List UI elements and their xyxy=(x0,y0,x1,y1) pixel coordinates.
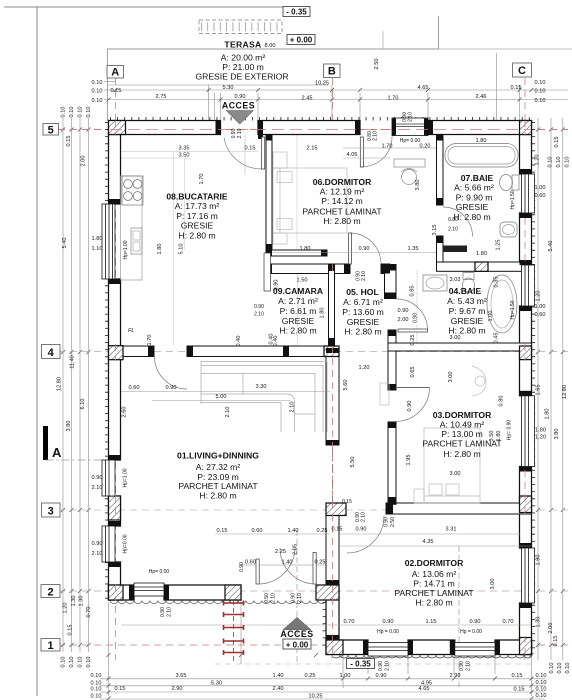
svg-text:2.10: 2.10 xyxy=(361,271,367,281)
baie7 door xyxy=(443,207,473,237)
witness verticals top xyxy=(208,85,210,120)
svg-text:0.10: 0.10 xyxy=(565,157,571,168)
kitchen counter xyxy=(121,176,143,280)
svg-text:0.90: 0.90 xyxy=(291,593,297,603)
svg-text:4.65: 4.65 xyxy=(419,686,430,692)
03/04 left wall xyxy=(385,265,397,299)
axis A xyxy=(115,78,117,660)
svg-text:2: 2 xyxy=(47,587,53,599)
svg-text:0.10: 0.10 xyxy=(549,663,555,674)
svg-text:12.80: 12.80 xyxy=(57,377,63,391)
exterior window caps xyxy=(109,199,121,204)
svg-text:2.10: 2.10 xyxy=(385,661,391,671)
kitchen hob xyxy=(122,176,143,205)
svg-text:5.00: 5.00 xyxy=(216,394,227,400)
baie4 shower oval xyxy=(487,275,517,333)
svg-text:2.60: 2.60 xyxy=(122,407,128,418)
svg-text:2.00: 2.00 xyxy=(548,623,554,634)
svg-text:03.DORMITOR: 03.DORMITOR xyxy=(433,410,492,420)
svg-text:A: 2.71 m²: A: 2.71 m² xyxy=(278,296,318,306)
svg-text:2.10: 2.10 xyxy=(225,407,231,418)
step wall x326 xyxy=(326,585,339,640)
svg-text:GRESIE: GRESIE xyxy=(451,316,484,326)
svg-text:1: 1 xyxy=(47,640,53,652)
dorm6 desk + chair xyxy=(394,159,425,167)
svg-text:0.10: 0.10 xyxy=(86,107,92,118)
svg-text:1.80: 1.80 xyxy=(545,409,551,420)
svg-text:2.10: 2.10 xyxy=(361,512,367,522)
svg-text:Hp=1.00: Hp=1.00 xyxy=(123,240,129,259)
baie4 toilet xyxy=(463,273,474,280)
hatched blocks xyxy=(109,121,532,655)
svg-text:PARCHET LAMINAT: PARCHET LAMINAT xyxy=(302,206,382,216)
svg-text:5.40: 5.40 xyxy=(62,238,68,249)
svg-text:GRESIE: GRESIE xyxy=(282,316,315,326)
svg-text:2.45: 2.45 xyxy=(302,96,313,102)
svg-text:2.90: 2.90 xyxy=(172,686,183,692)
top wall xyxy=(109,121,221,135)
dimension numbers xyxy=(91,80,559,700)
svg-text:1.00: 1.00 xyxy=(535,304,546,310)
baie4 sink xyxy=(423,275,447,291)
svg-text:A: 5.66 m²: A: 5.66 m² xyxy=(454,183,494,193)
svg-text:2.10: 2.10 xyxy=(373,131,379,141)
svg-text:P: 13.00 m: P: 13.00 m xyxy=(441,429,483,439)
svg-text:P: 9.90 m: P: 9.90 m xyxy=(456,192,493,202)
svg-text:0.10: 0.10 xyxy=(536,673,547,679)
svg-text:0.10: 0.10 xyxy=(535,80,546,86)
svg-text:H: 2.80 m: H: 2.80 m xyxy=(453,212,490,222)
svg-text:5.10: 5.10 xyxy=(179,244,185,255)
svg-text:1.20: 1.20 xyxy=(63,603,69,614)
svg-text:1.20: 1.20 xyxy=(536,291,542,302)
svg-text:1.70: 1.70 xyxy=(382,144,393,150)
svg-text:2.10: 2.10 xyxy=(167,607,173,617)
svg-text:1.80: 1.80 xyxy=(496,431,502,442)
svg-text:0.90: 0.90 xyxy=(383,619,394,625)
svg-text:4: 4 xyxy=(48,347,55,359)
svg-text:2.50: 2.50 xyxy=(374,59,380,70)
svg-text:5.50: 5.50 xyxy=(350,457,356,468)
svg-text:0.15: 0.15 xyxy=(342,499,352,505)
03/02 wall xyxy=(386,503,532,514)
svg-text:1.10: 1.10 xyxy=(92,246,103,252)
svg-text:0.80: 0.80 xyxy=(448,217,458,223)
svg-text:0.10: 0.10 xyxy=(536,680,547,686)
right wall xyxy=(520,135,532,175)
dorm3 furniture xyxy=(414,428,480,503)
svg-text:0.70: 0.70 xyxy=(86,607,92,618)
svg-text:0.90: 0.90 xyxy=(384,517,390,527)
svg-text:0.15: 0.15 xyxy=(245,146,256,152)
svg-text:0.10: 0.10 xyxy=(61,657,67,668)
axis 2 xyxy=(58,590,568,592)
svg-text:2.10: 2.10 xyxy=(448,227,458,233)
svg-text:5: 5 xyxy=(48,125,54,137)
dorm3 small items top xyxy=(380,383,389,405)
svg-text:0.15: 0.15 xyxy=(68,625,74,636)
svg-text:PARCHET LAMINAT: PARCHET LAMINAT xyxy=(178,481,258,491)
svg-text:0.90: 0.90 xyxy=(160,607,166,617)
svg-text:0.10: 0.10 xyxy=(69,107,75,118)
svg-text:1.95: 1.95 xyxy=(406,455,412,466)
svg-text:1.80: 1.80 xyxy=(157,244,163,255)
svg-text:0.25: 0.25 xyxy=(317,528,328,534)
dorm2 door xyxy=(347,516,384,553)
ACCES bottom xyxy=(280,617,313,639)
svg-text:4.35: 4.35 xyxy=(423,539,434,545)
baie4 door xyxy=(397,299,428,330)
svg-text:Hp= 0.00: Hp= 0.00 xyxy=(149,569,170,575)
left wall windows xyxy=(102,204,115,279)
svg-text:4.05: 4.05 xyxy=(347,152,358,158)
svg-text:1.65: 1.65 xyxy=(536,385,542,396)
svg-text:3.00: 3.00 xyxy=(450,471,461,477)
acces top door xyxy=(224,138,262,170)
svg-text:04.BAIE: 04.BAIE xyxy=(449,286,482,296)
svg-text:2.50: 2.50 xyxy=(390,517,396,527)
svg-text:2.10: 2.10 xyxy=(92,551,103,557)
svg-text:0.15: 0.15 xyxy=(514,687,525,693)
living/dorm2 wall xyxy=(326,348,339,445)
svg-text:1.25: 1.25 xyxy=(496,240,502,251)
svg-text:05. HOL: 05. HOL xyxy=(346,287,378,297)
svg-text:GRESIE: GRESIE xyxy=(347,317,380,327)
svg-text:A: A xyxy=(111,67,119,79)
svg-text:2.10: 2.10 xyxy=(466,661,472,671)
svg-text:1.70: 1.70 xyxy=(388,96,399,102)
svg-text:ACCES: ACCES xyxy=(280,629,313,639)
svg-text:5.30: 5.30 xyxy=(211,681,222,687)
dark dash-dot vertical x332 low xyxy=(332,448,334,652)
dorm6 door xyxy=(350,233,381,264)
svg-text:H: 2.80 m: H: 2.80 m xyxy=(344,327,381,337)
svg-text:3.50: 3.50 xyxy=(179,153,190,159)
svg-text:0.20: 0.20 xyxy=(420,144,431,150)
bottom horizontals xyxy=(330,657,531,659)
svg-text:P: 6.61 m: P: 6.61 m xyxy=(280,306,317,316)
svg-text:0.80: 0.80 xyxy=(499,396,505,407)
svg-text:1.00: 1.00 xyxy=(488,311,494,322)
svg-text:0.90: 0.90 xyxy=(407,401,413,412)
svg-text:3.80: 3.80 xyxy=(66,421,72,432)
axis boxes xyxy=(41,63,532,651)
svg-text:1.40: 1.40 xyxy=(288,528,299,534)
baie7 sink xyxy=(500,222,517,237)
svg-text:A: 17.73 m²: A: 17.73 m² xyxy=(175,201,220,211)
svg-text:Hp = 0.00: Hp = 0.00 xyxy=(377,629,399,635)
svg-text:A: 12.19 m²: A: 12.19 m² xyxy=(320,186,365,196)
svg-text:0.10: 0.10 xyxy=(536,693,547,699)
svg-text:0.90: 0.90 xyxy=(166,385,177,391)
dorm3 door xyxy=(396,388,430,422)
svg-text:P: 14.12 m: P: 14.12 m xyxy=(321,196,363,206)
axis B xyxy=(332,78,334,135)
svg-text:0.15: 0.15 xyxy=(217,528,228,534)
svg-text:07.BAIE: 07.BAIE xyxy=(461,173,494,183)
svg-text:P: 9.67 m: P: 9.67 m xyxy=(449,306,486,316)
right verticals xyxy=(537,118,539,660)
svg-text:0.90: 0.90 xyxy=(376,673,387,679)
interior: kitchen/dorm6 wall xyxy=(121,135,532,586)
svg-text:H: 2.80 m: H: 2.80 m xyxy=(279,326,316,336)
svg-text:0.15: 0.15 xyxy=(511,85,522,91)
svg-text:6.10: 6.10 xyxy=(80,399,86,410)
svg-text:4.65: 4.65 xyxy=(418,85,429,91)
svg-text:P: 14.71 m: P: 14.71 m xyxy=(413,579,455,589)
axis 4 xyxy=(58,351,568,353)
rotated dims xyxy=(57,59,572,674)
windows xyxy=(102,118,535,656)
svg-text:3.15: 3.15 xyxy=(432,225,438,236)
svg-text:P: 17.16 m: P: 17.16 m xyxy=(176,211,218,221)
svg-text:0.90: 0.90 xyxy=(235,94,246,100)
svg-text:A: 5.43 m²: A: 5.43 m² xyxy=(447,296,487,306)
svg-text:0.90: 0.90 xyxy=(92,541,103,547)
svg-text:0.10: 0.10 xyxy=(92,80,103,86)
kitchen-living door xyxy=(155,357,188,390)
svg-text:Hp=0.00: Hp=0.00 xyxy=(123,534,129,553)
svg-text:0.70: 0.70 xyxy=(503,619,514,625)
axis ticks (45deg) left xyxy=(61,88,565,700)
dorm6 terrace door xyxy=(364,137,393,167)
svg-text:2.40: 2.40 xyxy=(273,686,284,692)
svg-text:0.25: 0.25 xyxy=(305,673,316,679)
svg-text:2.10: 2.10 xyxy=(92,485,103,491)
svg-text:0.10: 0.10 xyxy=(91,687,102,693)
svg-text:1.80: 1.80 xyxy=(535,428,546,434)
svg-text:01.LIVING+DINNING: 01.LIVING+DINNING xyxy=(177,451,259,461)
room text blocks xyxy=(166,40,502,608)
svg-text:2.00: 2.00 xyxy=(398,317,409,323)
svg-text:0.85: 0.85 xyxy=(410,286,416,297)
svg-text:0.15: 0.15 xyxy=(66,136,72,147)
svg-text:- 0.35: - 0.35 xyxy=(350,660,371,669)
svg-text:0.10: 0.10 xyxy=(91,673,102,679)
svg-text:0.15: 0.15 xyxy=(553,636,559,647)
svg-text:0.10: 0.10 xyxy=(535,89,546,95)
svg-text:3.00: 3.00 xyxy=(450,335,461,341)
svg-text:10.25: 10.25 xyxy=(315,81,329,87)
svg-text:1.30: 1.30 xyxy=(79,596,85,607)
07/04 wall xyxy=(437,262,532,271)
svg-text:0.65: 0.65 xyxy=(410,367,416,378)
left wall xyxy=(109,135,121,205)
svg-text:0.35: 0.35 xyxy=(494,277,500,288)
svg-text:12.80: 12.80 xyxy=(562,385,568,399)
svg-text:Hp= 0.00: Hp= 0.00 xyxy=(400,138,421,144)
svg-text:A: A xyxy=(52,445,62,460)
svg-text:1.80: 1.80 xyxy=(476,138,487,144)
svg-text:5.40: 5.40 xyxy=(548,241,554,252)
svg-text:5.30: 5.30 xyxy=(223,85,234,91)
svg-text:0.15: 0.15 xyxy=(111,88,122,94)
svg-text:0.10: 0.10 xyxy=(86,657,92,668)
svg-text:3.80: 3.80 xyxy=(415,180,421,191)
svg-text:3.50: 3.50 xyxy=(489,431,495,442)
svg-text:2.10: 2.10 xyxy=(408,112,414,122)
svg-text:H: 2.80 m: H: 2.80 m xyxy=(415,598,452,608)
svg-text:B: B xyxy=(328,66,336,78)
axis 1 xyxy=(58,644,568,646)
svg-text:0.60: 0.60 xyxy=(129,385,140,391)
svg-text:0.90: 0.90 xyxy=(398,308,409,314)
svg-text:0.10: 0.10 xyxy=(78,657,84,668)
svg-text:0.90: 0.90 xyxy=(274,280,280,291)
svg-text:0.90: 0.90 xyxy=(359,246,370,252)
svg-text:09.CAMARA: 09.CAMARA xyxy=(273,286,323,296)
svg-text:1.80: 1.80 xyxy=(320,308,326,319)
dorm6 bed xyxy=(273,152,347,244)
svg-text:0.90: 0.90 xyxy=(413,313,419,323)
svg-text:Hp=1.50: Hp=1.50 xyxy=(510,300,516,319)
svg-text:3.35: 3.35 xyxy=(179,146,190,152)
svg-text:0.60: 0.60 xyxy=(535,312,546,318)
svg-text:0.15: 0.15 xyxy=(512,673,523,679)
svg-text:1.80: 1.80 xyxy=(536,555,542,566)
axis 3 xyxy=(58,509,568,511)
svg-text:0.10: 0.10 xyxy=(535,98,546,104)
svg-text:1.30: 1.30 xyxy=(536,617,542,628)
svg-text:3.65: 3.65 xyxy=(176,673,187,679)
svg-text:FL: FL xyxy=(128,328,134,334)
svg-text:2.25: 2.25 xyxy=(275,549,286,555)
svg-text:0.45: 0.45 xyxy=(494,333,500,344)
svg-text:H: 2.80 m: H: 2.80 m xyxy=(443,449,480,459)
svg-text:1.50: 1.50 xyxy=(297,278,308,284)
svg-text:0.90: 0.90 xyxy=(356,527,367,533)
right wall windows xyxy=(522,174,535,213)
svg-text:0.60: 0.60 xyxy=(535,193,546,199)
svg-text:H: 2.80 m: H: 2.80 m xyxy=(199,491,236,501)
baie7 toilet xyxy=(512,175,519,190)
bottom-left wall (living) xyxy=(109,585,135,600)
svg-text:08.BUCATARIE: 08.BUCATARIE xyxy=(166,192,228,202)
svg-text:0.10: 0.10 xyxy=(536,687,547,693)
svg-text:- 0.35: - 0.35 xyxy=(286,8,307,17)
top wall window xyxy=(392,118,428,136)
svg-text:1.70: 1.70 xyxy=(147,335,153,346)
svg-text:2.05: 2.05 xyxy=(293,544,299,555)
bottom wall (dorm2) xyxy=(326,640,368,655)
svg-text:0.60: 0.60 xyxy=(252,528,263,534)
svg-text:3.30: 3.30 xyxy=(256,384,267,390)
svg-text:02.DORMITOR: 02.DORMITOR xyxy=(405,558,464,568)
svg-text:+ 0.00: + 0.00 xyxy=(290,36,313,45)
L-shaped sofa (living) xyxy=(201,362,327,433)
svg-text:1.20: 1.20 xyxy=(535,435,546,441)
svg-text:A: 10.49 m²: A: 10.49 m² xyxy=(440,420,485,430)
svg-text:2.46: 2.46 xyxy=(476,94,487,100)
svg-text:TERASA: TERASA xyxy=(224,40,261,50)
svg-text:0.90: 0.90 xyxy=(459,661,465,671)
svg-text:3.31: 3.31 xyxy=(446,527,457,533)
svg-text:2.10: 2.10 xyxy=(290,402,296,413)
svg-text:2.10: 2.10 xyxy=(237,128,243,138)
svg-text:1.20: 1.20 xyxy=(359,365,370,371)
svg-text:1.40: 1.40 xyxy=(273,673,284,679)
bottom-left window xyxy=(134,583,164,596)
svg-text:0.25: 0.25 xyxy=(315,560,326,566)
witness verticals bottom xyxy=(240,600,242,664)
svg-text:0.15: 0.15 xyxy=(554,137,560,148)
svg-text:A: 13.06 m²: A: 13.06 m² xyxy=(412,569,457,579)
baie7 bathtub xyxy=(445,144,518,168)
svg-text:3.00: 3.00 xyxy=(490,579,496,590)
svg-text:8.00: 8.00 xyxy=(265,43,276,49)
svg-text:Hp= 0.90: Hp= 0.90 xyxy=(507,420,513,441)
svg-text:0.40: 0.40 xyxy=(236,336,242,347)
svg-text:2.75: 2.75 xyxy=(156,94,167,100)
svg-text:0.60: 0.60 xyxy=(245,560,256,566)
svg-text:0.10: 0.10 xyxy=(69,657,75,668)
svg-text:Hp = 0.00: Hp = 0.00 xyxy=(460,629,482,635)
interior door jambs xyxy=(344,264,350,274)
svg-text:0.10: 0.10 xyxy=(78,107,84,118)
svg-text:Hp=1.00: Hp=1.00 xyxy=(123,468,129,487)
svg-text:1.35: 1.35 xyxy=(408,246,419,252)
svg-text:0.90: 0.90 xyxy=(92,475,103,481)
svg-text:0.10: 0.10 xyxy=(548,157,554,168)
interior light witness lines xyxy=(214,93,216,120)
ACCES top xyxy=(222,100,255,124)
svg-text:1.30: 1.30 xyxy=(71,596,77,607)
svg-text:ACCES: ACCES xyxy=(222,100,255,110)
svg-text:0.10: 0.10 xyxy=(91,694,102,700)
svg-text:0.10: 0.10 xyxy=(565,663,571,674)
svg-text:1.15: 1.15 xyxy=(426,619,437,625)
svg-text:3.00: 3.00 xyxy=(448,372,454,383)
axis4 wall (kitchen/living) xyxy=(121,346,155,357)
top horizontals xyxy=(104,81,115,83)
svg-text:0.10: 0.10 xyxy=(557,663,563,674)
svg-text:0.90: 0.90 xyxy=(378,661,384,671)
svg-text:0.25: 0.25 xyxy=(410,335,416,346)
dorm6 bottom walls xyxy=(266,250,327,256)
svg-text:1.00: 1.00 xyxy=(535,185,546,191)
svg-text:H: 2.80 m: H: 2.80 m xyxy=(323,216,360,226)
level labels xyxy=(283,7,375,669)
camara right wall xyxy=(329,264,335,345)
svg-text:10.25: 10.25 xyxy=(309,694,323,700)
svg-text:11.40: 11.40 xyxy=(70,355,76,369)
scallop bottom-left xyxy=(110,601,334,604)
svg-text:0.90: 0.90 xyxy=(254,304,264,310)
svg-text:1.80: 1.80 xyxy=(476,251,487,257)
kitchen sink xyxy=(131,228,142,254)
svg-text:1.70: 1.70 xyxy=(199,174,205,185)
svg-text:1.80: 1.80 xyxy=(92,236,103,242)
svg-text:0.10: 0.10 xyxy=(556,157,562,168)
svg-text:0.90: 0.90 xyxy=(239,562,245,572)
svg-text:3.80: 3.80 xyxy=(554,429,560,440)
axis C xyxy=(524,78,526,660)
svg-text:A: 20.00 m²: A: 20.00 m² xyxy=(221,53,266,63)
svg-text:PARCHET LAMINAT: PARCHET LAMINAT xyxy=(394,588,474,598)
svg-text:0.90: 0.90 xyxy=(470,619,481,625)
svg-text:GRESIE: GRESIE xyxy=(456,202,489,212)
svg-text:C: C xyxy=(518,65,526,77)
svg-text:P: 13.60 m: P: 13.60 m xyxy=(342,307,384,317)
svg-text:1.00: 1.00 xyxy=(340,673,351,679)
svg-text:2.90: 2.90 xyxy=(450,673,461,679)
svg-text:A: 6.71 m²: A: 6.71 m² xyxy=(343,297,383,307)
svg-text:2.10: 2.10 xyxy=(254,312,264,318)
svg-text:2.15: 2.15 xyxy=(307,146,318,152)
svg-text:A: 27.32 m²: A: 27.32 m² xyxy=(196,462,241,472)
svg-text:GRESIE: GRESIE xyxy=(181,221,214,231)
svg-text:5.60: 5.60 xyxy=(343,380,349,391)
